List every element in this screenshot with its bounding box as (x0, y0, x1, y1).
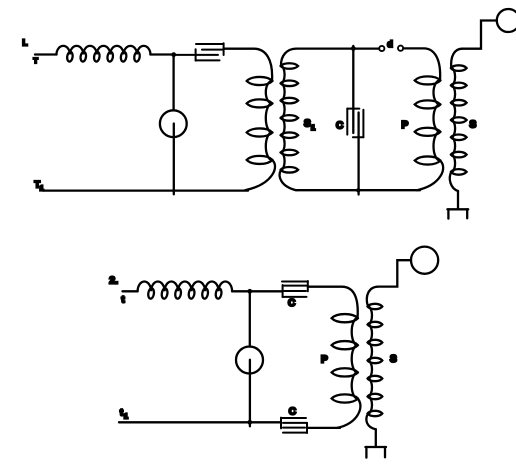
svg-text:d: d (387, 39, 393, 49)
wire S bottom to ground fig2 (375, 429, 377, 447)
wire junction down to ball (172, 55, 174, 111)
svg-text:1: 1 (311, 123, 315, 132)
transformer2 secondary S winding (450, 49, 467, 191)
capacitor plates K1 (interleaved) (174, 43, 224, 60)
svg-text:1: 1 (124, 414, 128, 421)
wire gap to transformer2 primary (403, 48, 440, 80)
inductor coil fig2 (138, 281, 233, 299)
wire junction down to ball fig2 (249, 291, 251, 346)
transformer1 secondary S1 winding (280, 49, 298, 191)
wire S top to antenna ball fig2 (378, 260, 411, 286)
wire plates to transformer3 primary top (308, 287, 358, 319)
svg-text:1: 1 (40, 186, 44, 193)
capacitor C bottom (interleaved plates) (281, 418, 307, 433)
node junction fig2 top (247, 289, 252, 294)
spark gap electrode left (379, 46, 384, 51)
wire S top to antenna ball (462, 21, 497, 49)
wire C bottom vertical (357, 113, 359, 195)
svg-text:S: S (304, 119, 311, 130)
capacitor C (vertical interleaved) (347, 109, 363, 138)
wire ball center down to bottom rail (173, 124, 175, 195)
node junction fig2 bottom (247, 420, 252, 425)
wire T input (35, 53, 57, 55)
svg-text:P: P (402, 120, 409, 131)
transformer3 primary P winding (332, 314, 361, 428)
wire transformer3 primary bottom to plates (307, 427, 340, 429)
antenna ball fig1 (497, 9, 516, 32)
bottom rail T1 left (43, 189, 248, 191)
wire plates to transformer1 primary (224, 49, 273, 81)
wire C top vertical (352, 46, 354, 133)
wire t input (123, 290, 138, 292)
spark ball B2 (236, 347, 263, 374)
svg-text:S: S (470, 120, 477, 131)
svg-text:C: C (289, 406, 296, 417)
spark gap electrode right (398, 46, 403, 51)
spark ball B1 (160, 110, 187, 137)
ground fig1 (447, 209, 468, 218)
svg-text:t: t (120, 408, 123, 418)
svg-text:L: L (23, 39, 28, 48)
node junction ball-line top (171, 52, 176, 57)
svg-text:T: T (34, 58, 39, 65)
transformer1 primary winding (245, 77, 275, 190)
wire S bottom to ground (457, 191, 459, 209)
svg-text:P: P (321, 355, 328, 366)
svg-text:S: S (390, 354, 397, 365)
svg-text:t: t (122, 294, 125, 304)
svg-text:C: C (336, 121, 343, 132)
svg-text:C: C (288, 298, 295, 309)
ground fig2 (365, 447, 386, 458)
wire ball to bottom rail fig2 (249, 360, 251, 427)
inductor L coil (57, 46, 151, 62)
node C top junction (351, 46, 356, 51)
antenna ball fig2 (411, 247, 438, 274)
transformer3 secondary S winding (366, 287, 382, 430)
capacitor C top (interleaved plates) (282, 281, 308, 297)
wire S1 top to spark gap (296, 47, 379, 49)
bottom rail right (296, 189, 420, 191)
wire coil to junction (150, 53, 173, 55)
transformer2 primary P winding (415, 76, 443, 190)
bottom rail t1 (119, 421, 281, 423)
wire coil to plates (232, 290, 282, 292)
svg-text:2.: 2. (109, 275, 118, 287)
node C bottom junction (356, 188, 360, 192)
